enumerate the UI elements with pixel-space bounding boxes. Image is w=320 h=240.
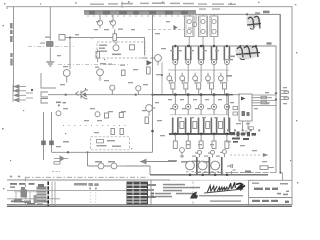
secondary ratings text bar xyxy=(74,183,99,189)
voltage table block (dark) xyxy=(127,182,157,205)
transistor Q2 xyxy=(63,70,70,83)
dotted dividers in psu xyxy=(90,189,96,205)
resistor R29 xyxy=(261,101,267,104)
component mark row xyxy=(227,129,260,131)
capacitor C2 xyxy=(110,85,115,95)
wire: drop to fuse line xyxy=(87,152,89,166)
terminal marks above table xyxy=(10,172,61,179)
handwritten note upper (8 ohm) xyxy=(247,16,261,29)
sheet number text xyxy=(277,191,289,196)
pad node A xyxy=(41,141,46,146)
wire: supply feed to cap bank xyxy=(125,166,150,175)
junction nodes on rail xyxy=(174,93,228,96)
wire: box output stems xyxy=(243,121,249,130)
resistor R32 xyxy=(96,50,100,63)
transistor Q16 xyxy=(56,111,61,116)
value labels under lower bank xyxy=(168,160,210,163)
emitter resistor R15U xyxy=(171,70,175,95)
cap bank separator plate 2 xyxy=(209,157,211,175)
emitter resistor R17U xyxy=(197,70,201,95)
table line 2 xyxy=(7,189,150,191)
wire: HT rail from strip to right edge xyxy=(196,14,280,172)
label 75 lower xyxy=(267,42,272,44)
transistor Q13 power xyxy=(199,95,204,134)
protection network box (dashed) xyxy=(91,137,130,150)
trimmer VR1 xyxy=(113,42,119,51)
handwritten note lower (4 ohm) xyxy=(236,46,260,59)
driver stage vertical rail xyxy=(152,15,154,144)
transistor Q3 xyxy=(97,69,104,81)
wire: NFB tap A xyxy=(43,112,45,160)
value labels in box xyxy=(97,140,122,147)
fuse FS1 xyxy=(88,163,111,169)
wire: C1 to ground xyxy=(49,48,51,63)
capacitor C1 (input coupling blob) xyxy=(40,41,54,47)
label 75 (net name) xyxy=(255,11,270,14)
junction nodes on feed rail xyxy=(174,45,257,48)
wire: rail extension xyxy=(230,130,246,134)
wire: driver rail down-turn xyxy=(152,144,154,153)
wire: bottom return to terminals xyxy=(195,172,276,174)
pad node B xyxy=(49,141,54,146)
resistor R30 xyxy=(233,107,238,110)
wire: Q2 collector drop xyxy=(69,38,71,69)
fuse labels above psu xyxy=(95,161,115,163)
wire: rail stub to protection box xyxy=(233,94,240,96)
connector pin number labels xyxy=(90,2,236,9)
resistor R7 xyxy=(130,45,135,50)
arrow on dash link xyxy=(263,153,268,157)
psu text rows xyxy=(10,183,48,205)
capacitor C13 xyxy=(59,35,65,41)
resistor R9 xyxy=(145,117,149,124)
ground xyxy=(46,62,54,66)
wire: right rail pair second xyxy=(280,14,282,172)
table line 1 xyxy=(7,179,170,181)
scan speckles xyxy=(2,1,298,189)
base resistor R12 xyxy=(193,73,198,84)
wire: left vertical drop to ground xyxy=(49,7,51,41)
component value labels (scattered) xyxy=(45,21,287,162)
transistor Q17 xyxy=(95,112,100,117)
wire: NFB tap B xyxy=(51,112,53,152)
transistor Q5 (lower driver) xyxy=(146,105,156,116)
transistor Q12 power xyxy=(186,95,191,134)
wire: upper collector rail xyxy=(153,94,234,96)
strip alignment tick xyxy=(121,2,123,9)
resistor R26 xyxy=(97,140,104,143)
wire: rail drop to sense row xyxy=(227,95,229,130)
approval signature wedge xyxy=(190,192,198,199)
lower base rail wire xyxy=(170,114,228,116)
transistor Q7 power xyxy=(186,46,191,70)
diode D5 xyxy=(208,150,215,157)
wire: ground bus under cap bank xyxy=(150,174,268,176)
junction node on HT wire xyxy=(246,13,248,15)
junction node xyxy=(31,89,33,91)
diode D7 xyxy=(241,97,246,101)
junction node xyxy=(65,94,67,96)
junction nodes right rail xyxy=(275,92,282,174)
rotated net label +40V/-40V/CLIP (left margin) xyxy=(10,23,13,66)
reservoir capacitor C8 xyxy=(186,161,195,172)
wire: mute feed vertical xyxy=(41,73,56,88)
transformer T1 winding block xyxy=(34,184,47,203)
mains wires xyxy=(14,192,37,201)
speaker net component cluster xyxy=(230,132,256,143)
emitter resistor R17L xyxy=(206,122,210,129)
title block divider xyxy=(249,180,292,206)
transistor Q11 power xyxy=(173,95,178,134)
emitter resistor R15L xyxy=(180,122,184,129)
resistor R28 xyxy=(261,96,267,99)
wire: collector feed rail xyxy=(172,46,276,173)
base resistor R10 xyxy=(167,73,172,84)
tail resistor R22 xyxy=(212,141,216,148)
fuse FS4 xyxy=(110,15,115,28)
lower bank tail resistors and caps xyxy=(173,134,229,148)
label 1-5 xyxy=(245,170,251,172)
diode D4 xyxy=(195,150,202,157)
bleed cap C11 xyxy=(227,164,236,170)
base resistor R13 xyxy=(206,73,211,84)
diode D6 xyxy=(220,150,226,158)
wire: drop to title area xyxy=(282,173,284,180)
title text POWER AMP xyxy=(254,188,278,190)
transistor Q20 inside box xyxy=(242,111,250,116)
capacitor C3 xyxy=(136,86,141,95)
junction node xyxy=(151,130,154,133)
table line 3 xyxy=(7,198,60,200)
resistor R25 xyxy=(120,129,123,135)
junction node xyxy=(227,94,229,96)
dotted bias row xyxy=(63,125,126,127)
capacitor C12 xyxy=(249,127,254,130)
wire: servo output dash xyxy=(230,154,268,156)
connector strip CON1 (top terminal bus) xyxy=(84,10,196,15)
base resistor R14 xyxy=(219,73,224,84)
emitter resistor R16U xyxy=(184,70,188,95)
wire: lower collector rail xyxy=(169,133,230,135)
zobel cluster xyxy=(54,156,68,164)
transistor Q15 power xyxy=(224,95,229,134)
resistor R24 xyxy=(111,129,114,135)
connector strip pin ticks xyxy=(88,15,190,17)
output socket box J3 xyxy=(210,15,218,46)
mains transformer T1 dark divider xyxy=(47,182,49,207)
transistor Q8 power xyxy=(199,46,204,70)
sheet label text xyxy=(252,183,288,185)
net label and junction xyxy=(56,102,66,107)
junction node xyxy=(135,94,137,96)
cap bank separator plate 1 xyxy=(196,157,198,175)
resistor R8 xyxy=(147,67,151,74)
resistor R6 xyxy=(113,30,117,41)
transistor Q6 power xyxy=(173,46,178,70)
output socket box J1 xyxy=(185,15,195,46)
emitter resistor R18L xyxy=(219,122,223,129)
resistor comb on right rails xyxy=(281,91,289,100)
shield dash line xyxy=(58,64,130,66)
bias trimmer box (dashed) xyxy=(97,42,145,58)
tail resistor R19 xyxy=(173,141,177,148)
clip LED D1 arrows xyxy=(13,85,33,102)
OUTPUT BANK (upper) xyxy=(167,46,230,94)
resistor R31 xyxy=(233,112,238,115)
transistor Q4 (driver) xyxy=(151,55,162,66)
emitter resistor R18U xyxy=(210,70,214,95)
terminal tick row xyxy=(196,171,243,174)
fuse FS2 xyxy=(111,163,125,169)
diode D2 xyxy=(174,25,178,30)
NOTES text block bottom-centre xyxy=(151,184,200,198)
psu dashed enclosure left xyxy=(24,177,26,204)
junction nodes lower rail xyxy=(174,133,228,136)
tail resistor R20 xyxy=(186,141,190,148)
wire: driver emitter drop xyxy=(161,62,163,95)
emitter resistor R16L xyxy=(193,122,197,129)
junction node xyxy=(151,94,153,96)
protection circuit box U2 xyxy=(239,94,252,121)
base rail wire xyxy=(168,69,229,71)
resistor R34 xyxy=(119,113,123,118)
wire: arrow feed xyxy=(140,159,176,163)
psu dashed enclosure top xyxy=(25,176,148,178)
tail resistor R23 xyxy=(225,141,229,148)
Marshall logo script xyxy=(205,182,246,193)
OUTPUT BANK (lower) xyxy=(170,95,230,134)
trademark text line xyxy=(199,195,243,196)
shield dash line upper xyxy=(28,45,74,47)
transistor Q1 (input pair) xyxy=(76,88,88,99)
resistor R5 xyxy=(122,70,125,76)
base resistor R11 xyxy=(180,73,185,84)
transistor Q14 power xyxy=(211,95,216,134)
transistor Q9 power xyxy=(211,46,216,70)
transformer secondary double line xyxy=(52,182,55,206)
junction nodes ground bus xyxy=(189,174,229,177)
diode D8 xyxy=(147,60,153,66)
drawing number text xyxy=(252,200,289,203)
reservoir capacitor C10 xyxy=(211,161,220,172)
junction node xyxy=(86,151,88,153)
tail resistor R21 xyxy=(199,141,203,148)
reservoir capacitor C9 xyxy=(198,161,207,172)
cap bank separator plate 3 xyxy=(221,157,223,175)
dash rail driver xyxy=(148,28,184,30)
fuse FS5 xyxy=(188,15,197,28)
wire: speaker return line xyxy=(52,151,153,153)
value labels in bias box xyxy=(99,45,121,56)
resistor R33 xyxy=(105,113,109,118)
fuse FS3 xyxy=(97,15,102,28)
net label mid-right xyxy=(226,56,235,77)
output socket box J2 xyxy=(199,15,208,46)
resistor R27 xyxy=(260,166,274,170)
diode D3 xyxy=(180,148,185,158)
input socket SK1 pins xyxy=(41,92,48,103)
handwritten note lower underlay xyxy=(235,45,258,60)
wire: input to Q1 base xyxy=(48,94,153,96)
emitter resistor R19U xyxy=(223,70,227,95)
transistor Q10 power xyxy=(224,46,229,70)
junction node xyxy=(67,151,69,153)
mains switch SW1 xyxy=(14,187,31,203)
address text line xyxy=(210,200,241,201)
feedback comb wires xyxy=(252,95,276,105)
wire: feedback top rail xyxy=(65,38,148,58)
handwritten note upper underlay xyxy=(246,15,260,28)
